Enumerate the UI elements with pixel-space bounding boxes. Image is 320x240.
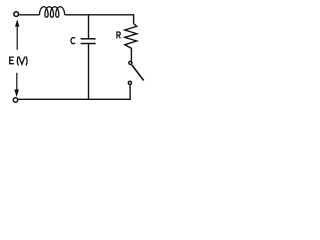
capacitor C xyxy=(81,39,96,44)
terminal T2 (bottom input, open circle) xyxy=(13,98,17,102)
arrow (upper, pointing up at top terminal) xyxy=(15,19,19,50)
terminal T1 (top input, open circle) xyxy=(14,12,19,17)
wire (capacitor bottom lead) xyxy=(88,44,90,99)
wire (inductor to top-right corner) xyxy=(65,15,134,24)
switch S1 upper contact xyxy=(129,61,132,64)
label E(V) xyxy=(10,56,27,65)
arrow (lower, pointing down at bottom terminal) xyxy=(14,73,19,97)
wire (bottom rail) xyxy=(18,98,131,100)
inductor L1 (coil) xyxy=(40,7,65,17)
wire (switch lower contact to bottom wire) xyxy=(129,85,131,100)
switch S1 blade (open) xyxy=(132,65,144,81)
resistor R (zigzag) xyxy=(125,24,137,49)
label R xyxy=(117,32,121,39)
wire (resistor to switch upper contact) xyxy=(130,49,132,61)
wire (capacitor top lead, junction with top rail) xyxy=(88,15,90,38)
wire (top terminal to inductor) xyxy=(19,14,39,16)
switch S1 lower contact xyxy=(128,81,131,84)
label C xyxy=(71,38,75,44)
